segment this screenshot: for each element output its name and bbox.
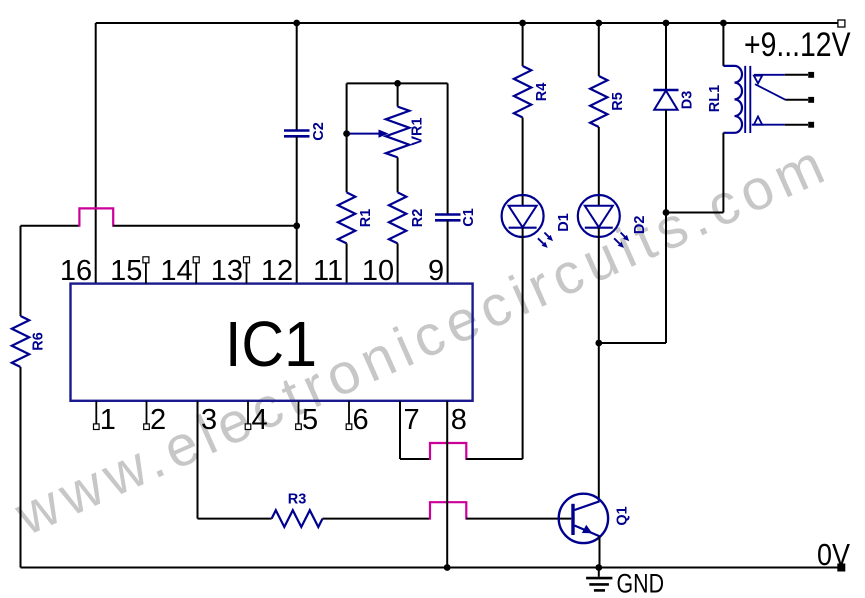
wire pin16 column — [95, 23, 97, 284]
svg-text:12: 12 — [261, 255, 293, 287]
svg-text:2: 2 — [150, 404, 166, 436]
capacitor C2 — [284, 129, 310, 132]
wire pin8 to 0V rail — [446, 401, 448, 568]
svg-text:R4: R4 — [534, 83, 550, 102]
node junction — [595, 340, 602, 347]
pin 1 stub — [95, 401, 97, 424]
capacitor C1 — [435, 213, 461, 216]
wire RL1 bottom — [722, 133, 724, 213]
wire hop to D1 column — [466, 458, 522, 460]
svg-text:C1: C1 — [461, 208, 477, 227]
svg-text:D1: D1 — [556, 213, 572, 232]
svg-text:11: 11 — [313, 255, 343, 287]
svg-text:VR1: VR1 — [410, 117, 426, 145]
wire Q1 emitter to 0V — [599, 536, 601, 567]
diode D3 — [653, 89, 678, 91]
wire R4 top — [522, 23, 524, 66]
svg-text:5: 5 — [302, 404, 318, 436]
wire pin7 down — [399, 401, 401, 459]
svg-text:R6: R6 — [31, 332, 47, 351]
wire D1 bottom down — [522, 228, 524, 459]
relay contact NC — [752, 75, 786, 125]
node junction — [663, 209, 670, 216]
node junction — [663, 20, 670, 27]
svg-text:14: 14 — [160, 255, 192, 287]
svg-text:R2: R2 — [410, 209, 426, 228]
wire relay COM terminal — [786, 99, 809, 101]
wire C1 top — [447, 83, 449, 214]
svg-text:6: 6 — [353, 404, 369, 436]
resistor R3 — [272, 510, 323, 527]
wire hop (crossover) — [430, 502, 466, 519]
wire hop (crossover) — [430, 443, 466, 460]
wire +V top rail — [96, 22, 841, 24]
wire VR1 to R2 — [397, 157, 399, 192]
wire D3 bottom — [665, 110, 667, 213]
resistor R5 — [590, 76, 607, 127]
ground GND — [598, 568, 600, 577]
wire R4 to D1 — [522, 118, 524, 206]
wire D3 top — [665, 23, 667, 90]
resistor R2 — [389, 192, 406, 243]
node junction — [595, 564, 602, 571]
node junction — [293, 222, 300, 229]
transistor Q1 — [559, 494, 608, 543]
svg-text:R1: R1 — [358, 209, 374, 228]
wire cluster top — [347, 82, 448, 84]
pin 2 stub — [146, 401, 148, 424]
node junction — [343, 130, 350, 137]
svg-text:RL1: RL1 — [707, 85, 723, 112]
node junction — [595, 20, 602, 27]
svg-text:16: 16 — [60, 255, 92, 287]
pin 15 stub — [145, 262, 147, 284]
wire relay NO terminal — [785, 124, 808, 126]
svg-text:13: 13 — [211, 255, 243, 287]
svg-text:3: 3 — [201, 404, 217, 436]
IC U1 (IC1) body — [71, 284, 473, 401]
node junction — [444, 564, 451, 571]
pin 13 stub — [246, 262, 248, 284]
wire 0V bottom rail — [21, 567, 842, 569]
relay coil RL1 — [723, 66, 742, 133]
wire C2 top — [296, 23, 298, 130]
wire C2 bottom to pin12 — [296, 136, 298, 283]
wire hop (crossover) — [79, 208, 113, 226]
wire hop to C2/pin12 junction — [113, 225, 297, 227]
svg-text:10: 10 — [362, 255, 394, 287]
terminal +V (open square) — [838, 20, 845, 27]
resistor R6 — [12, 316, 29, 367]
wire pin3 to R3 — [198, 518, 272, 520]
resistor R4 — [514, 66, 531, 118]
node junction — [720, 20, 727, 27]
wire R2 bottom to pin10 — [397, 243, 399, 283]
terminal 0V (filled square) — [837, 564, 845, 572]
wire left to hop — [21, 225, 80, 227]
wire relay NC terminal — [785, 74, 808, 76]
svg-text:0V: 0V — [817, 537, 850, 572]
svg-text:C2: C2 — [311, 122, 327, 141]
wire hop to Q1 base — [466, 518, 571, 520]
potentiometer VR1 — [386, 107, 410, 158]
wire D2 bottom to collector — [598, 228, 600, 502]
pin 4 stub — [247, 401, 249, 424]
node junction — [293, 20, 300, 27]
svg-text:R3: R3 — [288, 492, 307, 508]
svg-text:8: 8 — [451, 404, 467, 436]
wire to collector column — [599, 342, 666, 344]
svg-text:7: 7 — [404, 404, 420, 436]
svg-text:IC1: IC1 — [225, 308, 317, 380]
node junction — [394, 80, 401, 87]
svg-text:D3: D3 — [680, 91, 696, 110]
node junction — [519, 20, 526, 27]
wire R1 top — [346, 83, 348, 192]
svg-text:+9...12V: +9...12V — [744, 26, 851, 64]
wire RL1 top — [722, 23, 724, 66]
wire left vertical upper — [20, 226, 22, 316]
wire R5 top — [598, 23, 600, 76]
pin 14 stub — [195, 262, 197, 284]
resistor R1 — [338, 192, 355, 243]
svg-text:R5: R5 — [610, 92, 626, 111]
svg-text:GND: GND — [617, 569, 665, 598]
pin 5 stub — [298, 401, 300, 424]
wire left vertical lower — [20, 367, 22, 568]
wire pin3 down — [197, 401, 199, 519]
svg-text:www.electronicecircuits.com: www.electronicecircuits.com — [5, 130, 838, 548]
svg-text:9: 9 — [428, 255, 444, 287]
LED D2 — [578, 195, 620, 237]
wire R3 to hop — [323, 518, 431, 520]
wire VR1 top — [397, 83, 399, 106]
pin 6 stub — [348, 401, 350, 424]
svg-text:1: 1 — [100, 404, 116, 436]
wire R1 bottom to pin11 — [346, 243, 348, 283]
svg-text:4: 4 — [252, 404, 268, 436]
wire pin7 right — [400, 458, 430, 460]
svg-text:D2: D2 — [632, 216, 648, 235]
wire R5 to D2 — [598, 127, 600, 206]
wire D3 node down — [665, 213, 667, 344]
LED D1 — [502, 195, 544, 237]
svg-text:15: 15 — [110, 255, 142, 287]
svg-text:Q1: Q1 — [615, 506, 631, 525]
wire C1 bottom to pin9 — [447, 220, 449, 283]
wire D3 to RL1 bottom — [666, 212, 723, 214]
